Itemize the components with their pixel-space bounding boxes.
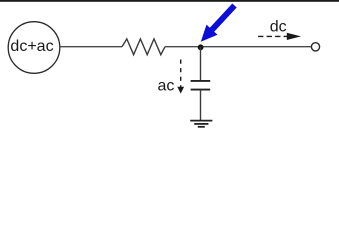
svg-text:dc: dc bbox=[270, 19, 287, 36]
wire source to resistor bbox=[60, 46, 122, 48]
capacitor top plate bbox=[191, 80, 211, 82]
wire node to capacitor bbox=[200, 47, 202, 81]
dc dashed current arrow bbox=[258, 35, 287, 37]
ground symbol bbox=[190, 121, 212, 127]
wire resistor to node bbox=[165, 46, 201, 48]
svg-text:dc+ac: dc+ac bbox=[10, 38, 53, 55]
resistor bbox=[122, 39, 165, 55]
blue annotation arrow pointing at node bbox=[201, 4, 237, 42]
source circle dc+ac bbox=[8, 22, 60, 74]
svg-text:ac: ac bbox=[158, 77, 175, 94]
wire node to output terminal bbox=[201, 46, 312, 48]
capacitor bottom plate bbox=[191, 89, 211, 91]
ac dashed current arrow bbox=[180, 60, 182, 88]
top border line bbox=[0, 0, 339, 2]
output terminal (open circle) bbox=[311, 43, 319, 51]
node junction dot bbox=[198, 44, 204, 50]
wire capacitor to ground bbox=[200, 90, 202, 121]
